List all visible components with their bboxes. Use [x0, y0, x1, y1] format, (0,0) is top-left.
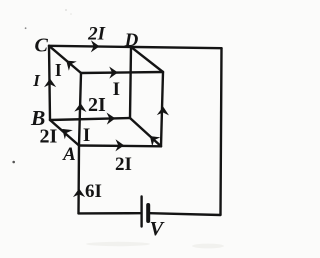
stray ink dot	[12, 161, 15, 164]
wire edge G-H	[161, 72, 163, 146]
arrow current I on edge F-G	[110, 67, 118, 77]
arrow current 2I on edge A-B	[59, 125, 71, 138]
svg-text:I: I	[113, 79, 120, 100]
wire edge E-H	[130, 118, 161, 146]
arrow current on edge B-E	[107, 113, 115, 124]
svg-text:I: I	[55, 60, 62, 80]
arrow current 6I on battery branch	[74, 189, 84, 196]
arrow current I on edge F-C	[63, 57, 75, 70]
arrow current on edge H-G	[158, 107, 169, 115]
arrow current 2I on edge A-H	[116, 140, 124, 150]
svg-text:2I: 2I	[115, 154, 132, 175]
wire edge C-F	[49, 46, 81, 73]
wire edge B-A	[50, 120, 79, 146]
arrow current 2I on top edge	[92, 41, 100, 52]
wire edge F-G	[81, 72, 163, 73]
wire edge D-G	[131, 47, 163, 72]
arrow current I on edge B-C	[45, 79, 55, 87]
wire edge B-E	[50, 118, 130, 120]
wire right side of external loop	[221, 48, 222, 214]
wire edge F-A	[79, 73, 81, 146]
svg-text:D: D	[124, 30, 139, 51]
svg-text:C: C	[35, 34, 49, 56]
wire bottom right from battery to loop	[150, 213, 221, 215]
svg-text:2I: 2I	[87, 23, 106, 44]
wire from node A down to battery branch	[77, 146, 80, 214]
faint speck	[70, 13, 72, 15]
svg-text:V: V	[149, 218, 165, 240]
svg-text:2I: 2I	[88, 94, 106, 116]
svg-text:6I: 6I	[85, 181, 102, 202]
svg-text:2I: 2I	[40, 125, 58, 147]
arrow current on edge H-E	[147, 133, 159, 146]
svg-text:I: I	[32, 71, 41, 90]
faint speck	[65, 9, 67, 11]
wire edge D-E	[130, 47, 131, 118]
battery V plate short	[146, 205, 150, 221]
stray ink speck top left	[25, 27, 27, 29]
faint smudge bottom	[86, 242, 150, 246]
wire edge A-H	[79, 144, 161, 147]
wire bottom left from A wire to battery	[79, 212, 141, 215]
wire edge C-B	[49, 46, 50, 120]
svg-text:A: A	[62, 144, 76, 165]
battery V plate long	[140, 197, 142, 227]
svg-text:I: I	[83, 125, 90, 146]
wire top edge C-D and to external loop	[49, 46, 222, 48]
faint smudge bottom right	[192, 244, 224, 249]
arrow current 2I on edge A-F	[75, 104, 86, 112]
